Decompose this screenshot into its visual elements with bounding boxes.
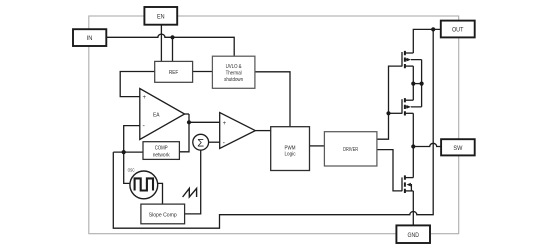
summer sigma bbox=[193, 134, 209, 150]
pin OUT bbox=[441, 21, 475, 38]
wire M1 source to M2 drain bbox=[412, 66, 414, 100]
svg-text:shutdown: shutdown bbox=[224, 77, 243, 83]
svg-text:UVLO &: UVLO & bbox=[226, 64, 242, 70]
svg-text:SW: SW bbox=[453, 145, 463, 152]
junction feedback/COMP node bbox=[122, 150, 126, 154]
svg-text:PWM: PWM bbox=[285, 145, 296, 151]
junction body bridge left bbox=[411, 82, 415, 86]
block COMP network bbox=[143, 142, 179, 160]
wire M1 drain to OUT bbox=[413, 29, 441, 53]
svg-text:Logic: Logic bbox=[285, 152, 296, 158]
svg-text:Slope Comp: Slope Comp bbox=[149, 212, 177, 218]
comparator U1 bbox=[220, 113, 256, 149]
svg-text:OUT: OUT bbox=[452, 27, 464, 34]
wire comparator to PWM Logic bbox=[255, 130, 270, 132]
pin IN bbox=[73, 29, 106, 46]
svg-text:+: + bbox=[223, 121, 227, 127]
wire DRIVER to low-side gate bbox=[377, 150, 402, 191]
svg-text:REF: REF bbox=[169, 70, 179, 76]
svg-text:EA: EA bbox=[153, 112, 160, 118]
wire body-source bridge bbox=[413, 83, 421, 85]
block UVLO / Thermal shutdown bbox=[212, 56, 255, 88]
wire feedback: node down, along bottom, up to OUT (hops over GND drop) bbox=[113, 29, 433, 228]
pin EN bbox=[144, 7, 177, 25]
block Slope Comp bbox=[141, 204, 185, 224]
sawtooth waveform symbol bbox=[183, 188, 197, 197]
junction OUT feedback tap bbox=[431, 27, 435, 31]
svg-text:IN: IN bbox=[87, 35, 93, 42]
svg-text:DRIVER: DRIVER bbox=[343, 147, 358, 153]
svg-text:EN: EN bbox=[157, 13, 165, 20]
wire PWM Logic to DRIVER bbox=[310, 145, 325, 147]
junction SW node bbox=[411, 144, 415, 148]
wire IN node to REF bbox=[172, 37, 174, 61]
svg-text:+: + bbox=[143, 95, 147, 101]
wire summer to comparator - bbox=[209, 141, 220, 143]
wire M3 source to GND bbox=[412, 191, 414, 226]
transistor M2 high-side PMOS bbox=[402, 98, 422, 115]
svg-text:Σ: Σ bbox=[197, 138, 204, 150]
wire UVLO to PWM Logic bbox=[255, 72, 290, 127]
block PWM Logic bbox=[271, 127, 310, 171]
wire EA- input to feedback node and OSC bbox=[124, 126, 140, 184]
wire REF to UVLO bbox=[193, 71, 213, 73]
junction EA output node bbox=[187, 120, 191, 124]
wire EA output node to comparator + bbox=[189, 121, 220, 123]
svg-text:GND: GND bbox=[407, 232, 419, 239]
op-amp EA bbox=[140, 89, 185, 140]
wire body chain M1 to M2 bbox=[421, 60, 423, 107]
svg-text:Thermal: Thermal bbox=[226, 71, 242, 77]
wire COMP network to EA output bbox=[179, 114, 189, 152]
pin GND bbox=[396, 225, 430, 243]
oscillator OSC bbox=[128, 168, 158, 199]
wire feedback node to COMP network bbox=[113, 151, 143, 153]
junction body bridge right bbox=[420, 82, 424, 86]
junction IN/EN node bbox=[170, 35, 174, 39]
wire Slope Comp to summer bbox=[185, 150, 201, 214]
svg-text:network: network bbox=[153, 153, 170, 159]
wire OSC to Slope Comp bbox=[158, 183, 163, 204]
transistor M3 low-side NMOS bbox=[402, 175, 413, 193]
transistor M1 high-side PMOS bbox=[402, 51, 422, 68]
block REF bbox=[155, 61, 193, 82]
junction gate drive node bbox=[386, 111, 390, 115]
wire M2 gate lead bbox=[389, 112, 403, 114]
pin SW bbox=[441, 139, 475, 155]
wire EN to REF bbox=[160, 25, 162, 62]
wire EA output stub bbox=[185, 113, 189, 115]
wire DRIVER to high-side gates bbox=[377, 66, 402, 139]
svg-text:COMP: COMP bbox=[155, 146, 168, 152]
block DRIVER bbox=[324, 132, 377, 166]
svg-text:OSC: OSC bbox=[128, 168, 135, 173]
wire M2 source to SW node to M3 drain bbox=[412, 113, 414, 177]
wire IN to UVLO (with hop over EN wire) bbox=[106, 34, 234, 56]
wire SW node to SW pin (hop over feedback wire) bbox=[413, 143, 441, 146]
wire REF to EA+ input bbox=[120, 72, 155, 97]
IC boundary bbox=[89, 16, 459, 234]
